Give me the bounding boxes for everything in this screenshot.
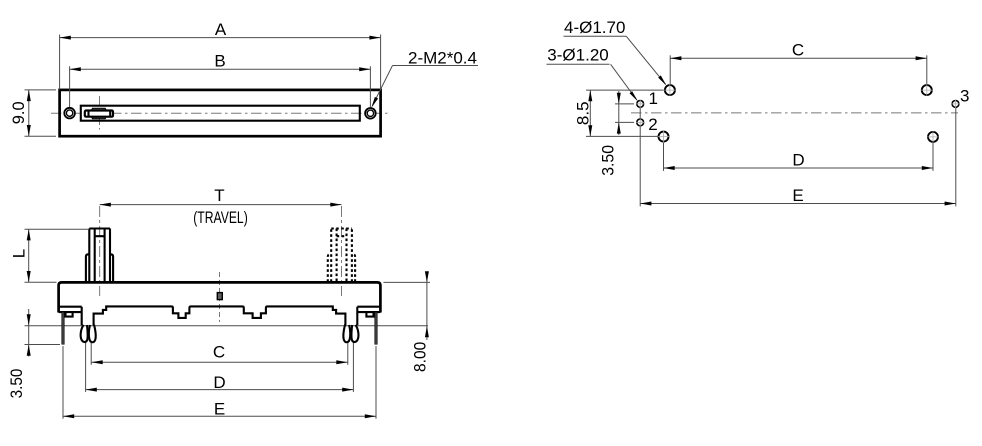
knob left cap line [87,111,89,117]
left foot claw 1 [81,325,88,342]
body outline [59,282,381,312]
dimension D extension lines [663,143,665,171]
seating plane line [25,325,429,327]
left foot claw 2 [89,325,96,343]
dimension L line [28,229,30,282]
dimension E line [640,203,956,205]
right flange tab [366,312,373,317]
bracket profile [82,306,358,325]
label 3-dia1.20 leader [547,63,610,65]
mounting hole top-left [665,85,675,95]
right mounting hole [365,108,376,119]
svg-text:C: C [213,343,225,362]
dimension 9.0 extension lines [25,89,57,91]
dimension E extension lines [639,104,641,206]
dimension B line [70,68,371,70]
dimension 3.50 extension lines [615,103,634,105]
svg-text:C: C [792,41,804,60]
right shaft centerline [341,206,343,296]
svg-text:3.50: 3.50 [7,369,26,399]
mounting hole bottom-left [659,132,669,142]
dimension 8.5 extension lines [586,89,664,91]
pin1 hole [637,101,644,108]
svg-text:3.50: 3.50 [599,145,618,176]
center marker rect [217,293,222,300]
svg-text:8.5: 8.5 [574,101,593,125]
dimension L extension lines [25,228,89,230]
left flange [59,307,82,312]
body outline rect [60,90,381,136]
dimension E extension lines [62,346,64,419]
right shaft dashed [328,229,355,282]
dimension E line [63,415,376,417]
left mounting hole [64,108,75,119]
dimension C line [92,361,348,363]
dimension 8.00 extension top [384,281,431,283]
dimension 9.0 line [28,90,30,136]
left shaft centerline [99,206,101,296]
hole center marks [664,84,675,95]
dimension 8.5 line [589,90,591,136]
knob right cap line [109,111,111,117]
horizontal centerline [631,112,958,114]
svg-text:2: 2 [648,115,657,134]
svg-text:B: B [214,52,225,71]
svg-text:9.0: 9.0 [9,101,28,124]
horizontal centerline [51,112,389,114]
svg-text:1: 1 [649,89,658,108]
mounting hole bottom-right [928,132,938,142]
svg-text:3-Ø1.20: 3-Ø1.20 [547,45,608,64]
label 4-dia1.70 leader [564,35,627,37]
dimension T line [100,204,342,206]
body center dashed line [219,272,221,322]
right flange [357,307,380,312]
dimension C extension lines [90,343,92,365]
svg-text:8.00: 8.00 [410,342,429,372]
dimension D line [664,167,934,169]
pin3 hole [952,101,959,108]
knob bottom pad [91,117,106,119]
svg-text:L: L [10,249,29,258]
knob bar [85,111,113,117]
dimension D line [86,389,354,391]
dimension B extension lines [69,66,71,107]
svg-text:3: 3 [960,87,969,106]
svg-text:(TRAVEL): (TRAVEL) [193,208,248,227]
dimension 3.50 bottom extension [25,344,61,346]
dimension A line [60,37,381,39]
svg-text:D: D [213,373,225,392]
right foot claw 1 [343,325,350,343]
dimension C line [670,57,927,59]
dimension C extension lines [669,55,671,84]
left terminal pin [62,312,65,344]
dimension 8.00 line [426,272,428,341]
dimension A extension lines [59,35,61,90]
left shaft [86,229,113,282]
svg-text:4-Ø1.70: 4-Ø1.70 [564,18,625,37]
knob top pad [91,108,106,110]
svg-text:T: T [214,186,224,205]
left flange tab [66,312,73,317]
pin2 hole [637,119,644,126]
svg-text:2-M2*0.4: 2-M2*0.4 [408,49,477,68]
mounting hole top-right [922,85,932,95]
dimension D extension lines [85,343,87,392]
dimension 3.50 line [618,91,620,135]
slot [81,106,360,121]
svg-text:E: E [214,400,225,419]
svg-text:E: E [792,186,803,205]
label 2-M2*0.4 leader [393,65,479,67]
left shaft inner lines [95,229,105,282]
svg-text:A: A [215,20,227,39]
svg-text:D: D [792,150,804,169]
right foot claw 2 [351,325,358,342]
right terminal pin [375,312,378,344]
dimension 3.50 line [28,309,30,357]
vertical centerline through knob [99,96,101,130]
